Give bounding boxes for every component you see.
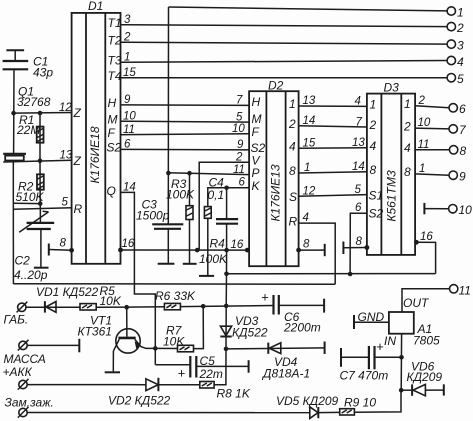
svg-text:Д818А-1: Д818А-1 — [261, 367, 310, 381]
wire C4 leg down (to rail, bottom net, VD3, R8) — [214, 224, 227, 385]
capacitor C1 43p top end bar — [6, 49, 24, 51]
svg-text:R: R — [289, 214, 298, 228]
svg-text:9: 9 — [237, 139, 244, 151]
wire R2 bottom to crystal line — [13, 202, 40, 204]
wire A1 OUT up to terminal 11 — [402, 289, 450, 312]
svg-text:100K: 100K — [166, 188, 195, 202]
D3 pin 8 stub with end bar — [342, 242, 344, 255]
terminal 10 stub with end bar — [423, 203, 425, 214]
wire D3 pin16 leg — [416, 242, 435, 273]
svg-text:VD2 КД522: VD2 КД522 — [108, 394, 171, 408]
svg-text:5: 5 — [457, 72, 464, 86]
svg-text:T4: T4 — [108, 69, 122, 83]
svg-text:VD1 КД522: VD1 КД522 — [36, 285, 99, 299]
svg-text:C7 470m: C7 470m — [340, 369, 389, 383]
wire VD5 to R9 — [318, 411, 339, 413]
svg-text:4..20p: 4..20p — [14, 268, 48, 282]
svg-text:H: H — [108, 96, 117, 110]
svg-text:+: + — [178, 366, 186, 381]
wire R6 to C6 — [180, 306, 273, 307]
wire D2 pin1 to D3 — [299, 105, 367, 107]
svg-text:R4: R4 — [210, 237, 226, 251]
wire net 1Hz from node P to terminal 1 — [169, 7, 448, 11]
node R7 top — [201, 304, 206, 309]
capacitor C5 22m — [155, 364, 190, 366]
svg-text:T1: T1 — [108, 16, 122, 30]
wire D2 pin R leg to common bottom — [299, 223, 336, 284]
terminal 10 — [449, 205, 457, 213]
wire C6 right to end bar — [279, 304, 324, 306]
svg-text:F: F — [252, 125, 260, 139]
terminal 8 — [449, 146, 457, 154]
svg-text:14: 14 — [352, 161, 365, 173]
svg-text:D3: D3 — [384, 81, 400, 95]
wire C5 right to end bar — [196, 365, 248, 367]
IC D2 K176IE13 — [249, 79, 299, 267]
wire MASSA to end bar — [27, 344, 79, 346]
svg-text:4: 4 — [289, 140, 296, 154]
svg-text:VD5 КД209: VD5 КД209 — [276, 394, 339, 408]
wire T4 to terminal 5 — [121, 77, 448, 79]
VT1 emitter lead with arrow — [135, 339, 156, 348]
wire K D2 pin K and R4 leg — [208, 188, 249, 276]
svg-text:10: 10 — [418, 117, 431, 129]
svg-text:8: 8 — [460, 144, 467, 158]
wire GAB row — [26, 306, 80, 308]
svg-text:2: 2 — [288, 117, 296, 131]
svg-text:1: 1 — [370, 98, 377, 112]
svg-text:R: R — [74, 202, 83, 216]
svg-text:OUT: OUT — [403, 296, 430, 310]
svg-text:4: 4 — [303, 212, 309, 224]
resistor R4 100K — [204, 207, 211, 219]
node rail / C4 leg — [224, 248, 229, 253]
node emitter / Q leg / R7 / C5 — [153, 346, 158, 351]
svg-text:M: M — [108, 113, 118, 127]
svg-text:Q: Q — [107, 184, 116, 198]
svg-text:2: 2 — [369, 118, 377, 132]
svg-text:H: H — [252, 95, 261, 109]
terminal 6 — [449, 104, 457, 112]
wire D2 pin4 to D3 — [299, 147, 367, 150]
svg-text:S1: S1 — [369, 189, 384, 203]
wire T3 to terminal 4 — [121, 61, 448, 63]
svg-text:6: 6 — [355, 202, 362, 214]
svg-text:0,1: 0,1 — [208, 188, 225, 202]
svg-text:1: 1 — [124, 52, 130, 64]
svg-text:T3: T3 — [108, 54, 122, 68]
wire C1 bottom to node — [13, 69, 15, 153]
svg-text:1: 1 — [289, 97, 296, 111]
wire crystal bottom down — [12, 162, 14, 284]
svg-text:11: 11 — [418, 139, 430, 151]
wire crystal bottom / pin 13 — [3, 160, 71, 162]
svg-text:5: 5 — [62, 197, 69, 209]
svg-text:2: 2 — [418, 95, 426, 107]
svg-text:6: 6 — [459, 102, 466, 116]
svg-text:+АКК: +АКК — [3, 365, 33, 379]
svg-text:16: 16 — [122, 238, 135, 250]
wire D2 pin2 to D3 — [299, 126, 367, 127]
svg-text:К176ИЕ18: К176ИЕ18 — [88, 126, 102, 183]
svg-text:8: 8 — [60, 238, 67, 250]
svg-text:11: 11 — [233, 164, 245, 176]
wire M D1 to D2 — [121, 120, 250, 123]
svg-text:T2: T2 — [108, 34, 122, 48]
node P / R3 — [187, 171, 192, 176]
svg-text:4: 4 — [457, 55, 464, 69]
wire A1 IN down — [400, 334, 402, 391]
svg-text:10: 10 — [459, 203, 473, 217]
svg-text:К561ТМ3: К561ТМ3 — [385, 170, 399, 222]
svg-text:16: 16 — [231, 239, 244, 251]
wire VD2 to R8 — [158, 384, 199, 386]
svg-text:12: 12 — [303, 185, 316, 197]
svg-text:КД209: КД209 — [407, 370, 443, 384]
svg-text:S2: S2 — [369, 207, 384, 221]
wire T1 to terminal 2 — [121, 25, 448, 27]
svg-text:10: 10 — [232, 123, 245, 135]
svg-text:КТ361: КТ361 — [78, 325, 112, 339]
wire D3 pin8 to terminal 9 — [415, 174, 449, 175]
svg-text:100K: 100K — [199, 252, 228, 266]
svg-text:12: 12 — [59, 102, 72, 114]
svg-text:F: F — [108, 126, 116, 140]
wire node P horizontal to D2 pin P — [167, 173, 249, 175]
wire F D1 to D2 — [121, 133, 250, 136]
svg-text:3: 3 — [457, 39, 464, 53]
svg-text:7: 7 — [356, 117, 363, 129]
svg-text:9: 9 — [459, 170, 466, 184]
node R2 bottom — [38, 201, 43, 206]
terminal 11 — [450, 285, 458, 293]
svg-text:2: 2 — [403, 120, 411, 134]
voltage regulator A1 7805 — [389, 312, 414, 334]
wire pin 12 Z — [14, 112, 72, 115]
terminal 5 — [447, 74, 455, 82]
wire D2 pin8 to D3 — [299, 172, 367, 173]
counter IC D1 K176IE18 — [72, 0, 122, 264]
node VT1 base — [124, 305, 129, 310]
wire Zam.zazh row — [27, 412, 310, 414]
svg-text:43p: 43p — [33, 66, 53, 80]
svg-text:5: 5 — [355, 184, 362, 196]
svg-text:10K: 10K — [100, 294, 122, 308]
VT1 collector lead to end bar — [113, 339, 119, 371]
svg-text:15: 15 — [303, 138, 316, 150]
svg-text:2: 2 — [123, 32, 131, 44]
svg-text:8: 8 — [303, 239, 310, 251]
svg-text:ГАБ.: ГАБ. — [4, 313, 29, 327]
svg-text:МАССА: МАССА — [4, 352, 46, 366]
svg-text:P: P — [252, 166, 260, 180]
svg-text:D2: D2 — [268, 79, 284, 93]
wire bottom net C4 to D3 pin16 — [227, 273, 436, 275]
wire Q pin14 leg — [121, 192, 156, 364]
wire R7 right leg up — [194, 306, 204, 348]
node C4 leg / C6 — [224, 304, 229, 309]
svg-text:IN: IN — [384, 334, 396, 348]
terminal GAB — [18, 303, 26, 311]
svg-text:K: K — [252, 179, 261, 193]
svg-text:9: 9 — [124, 94, 131, 106]
wire +AKK row — [27, 384, 146, 386]
terminal 9 — [449, 171, 457, 179]
svg-text:11: 11 — [459, 283, 471, 297]
wire common bottom from crystal line to D2 pin R — [13, 283, 335, 286]
svg-text:R6 33K: R6 33K — [155, 289, 196, 303]
svg-text:Z: Z — [73, 154, 82, 168]
node C1/Q1/pin12 — [11, 111, 16, 116]
svg-text:S: S — [289, 190, 297, 204]
svg-text:1: 1 — [457, 6, 464, 20]
wire C1 top stem — [14, 50, 16, 60]
wire D3 pin2 to terminal 7 — [415, 127, 449, 130]
node R1 top — [38, 111, 43, 116]
svg-text:Зам.заж.: Зам.заж. — [5, 396, 54, 410]
svg-text:R9 10: R9 10 — [344, 396, 376, 410]
svg-text:8: 8 — [370, 163, 377, 177]
node C7 / A1 — [399, 355, 404, 360]
svg-text:8: 8 — [289, 164, 296, 178]
svg-text:15: 15 — [123, 67, 136, 79]
svg-text:КД522: КД522 — [232, 326, 268, 340]
svg-text:14: 14 — [303, 115, 316, 127]
svg-text:13: 13 — [303, 95, 316, 107]
wire D3 pin4 to terminal 8 — [415, 149, 449, 151]
svg-text:2200m: 2200m — [283, 321, 321, 335]
IC D3 K561TM3 — [367, 81, 415, 255]
wire R9 to A1 leg — [354, 390, 401, 412]
node rail / V leg — [195, 248, 200, 253]
svg-text:2: 2 — [456, 21, 464, 35]
svg-text:1: 1 — [404, 97, 411, 111]
D2 pin 8 stub with end bar — [299, 249, 325, 251]
svg-text:32768: 32768 — [17, 95, 51, 109]
terminal 3 — [447, 40, 455, 48]
svg-text:10: 10 — [123, 111, 136, 123]
wire D2 pinS to D3 — [299, 195, 367, 197]
wire VD4 row — [226, 348, 325, 349]
svg-text:13: 13 — [352, 137, 365, 149]
svg-text:M: M — [252, 112, 262, 126]
svg-text:3: 3 — [124, 14, 131, 26]
wire pin 5 R — [13, 208, 71, 210]
svg-text:К176ИЕ13: К176ИЕ13 — [269, 164, 283, 221]
svg-text:2: 2 — [235, 152, 243, 164]
svg-text:S2: S2 — [107, 141, 122, 155]
svg-text:6: 6 — [124, 139, 131, 151]
svg-text:7805: 7805 — [413, 334, 440, 348]
wire S2 D1 to D2 — [121, 148, 250, 151]
node VD6 / A1 leg — [399, 388, 404, 393]
svg-text:1: 1 — [304, 162, 310, 174]
svg-text:4: 4 — [370, 139, 377, 153]
trimmer capacitor C2 4..20p — [39, 204, 41, 223]
wire V leg D2 pin V — [199, 162, 249, 250]
svg-text:5: 5 — [236, 111, 243, 123]
svg-text:1: 1 — [419, 163, 425, 175]
wire H D1 to D2 — [121, 104, 250, 107]
svg-text:6: 6 — [239, 177, 246, 189]
svg-text:C2: C2 — [15, 254, 31, 268]
svg-text:16: 16 — [420, 231, 433, 243]
svg-text:11: 11 — [123, 124, 135, 136]
terminal 4 — [447, 56, 455, 64]
svg-text:+: + — [261, 290, 269, 305]
svg-text:8: 8 — [404, 165, 411, 179]
terminal MASSA — [19, 341, 27, 349]
svg-text:4: 4 — [404, 141, 411, 155]
svg-text:Z: Z — [73, 106, 82, 120]
svg-text:+: + — [376, 339, 384, 354]
svg-text:13: 13 — [60, 150, 73, 162]
wire R5 to R6 — [96, 306, 164, 309]
node R1 bottom / pin 13 — [38, 159, 43, 164]
wire node P vertical (terminal1 line down to C3) — [167, 7, 169, 224]
svg-text:14: 14 — [123, 181, 136, 193]
svg-text:8: 8 — [356, 236, 363, 248]
capacitor C1 plates — [3, 60, 29, 62]
svg-text:D1: D1 — [88, 0, 103, 13]
node P / C3 — [166, 171, 171, 176]
svg-text:4: 4 — [355, 96, 361, 108]
svg-text:R8 1K: R8 1K — [217, 387, 251, 401]
svg-text:7: 7 — [236, 95, 243, 107]
terminal 7 — [449, 125, 457, 133]
wire T2 to terminal 3 — [121, 42, 448, 44]
svg-text:22m: 22m — [199, 367, 223, 381]
terminal 1 — [447, 7, 455, 15]
wire D3 pin1 to terminal 6 — [415, 106, 449, 108]
wire D3 pin S2 leg — [350, 213, 367, 274]
svg-text:1500p: 1500p — [136, 209, 170, 223]
terminal 2 — [447, 22, 455, 30]
D1 pin 8 stub with end bar — [48, 244, 50, 256]
supply rail D1 pin16 to D2 pin16 — [121, 249, 248, 251]
